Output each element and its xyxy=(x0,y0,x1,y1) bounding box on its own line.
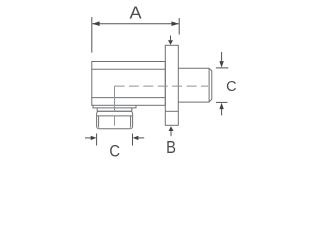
label C right xyxy=(226,79,237,95)
dim C bottom extension line right xyxy=(132,134,134,146)
body inner top line xyxy=(92,68,166,70)
svg-text:C: C xyxy=(109,143,120,161)
svg-text:B: B xyxy=(166,137,176,157)
centerline horizontal (stub axis, dashed) xyxy=(115,85,209,87)
dim B tail top xyxy=(170,36,172,41)
label A xyxy=(129,3,141,23)
dim C right arrowhead bottom (points up) xyxy=(219,103,223,109)
dim C bottom arrowhead right (points left) xyxy=(133,136,139,140)
body (main horizontal block) xyxy=(92,62,166,106)
svg-text:A: A xyxy=(129,3,141,23)
label C bottom xyxy=(109,143,120,161)
nut chamfer shoulder line xyxy=(97,115,132,117)
nut (bottom) xyxy=(97,111,133,129)
right stub (threaded port) xyxy=(178,68,212,102)
flange plate (vertical) xyxy=(165,45,178,125)
dim C right extension line top xyxy=(216,67,228,69)
dim C bottom extension line left xyxy=(96,134,98,146)
dim A line xyxy=(92,23,179,25)
dim A extension line right xyxy=(178,18,180,35)
centerline vertical (bottom port axis, dashed) xyxy=(114,86,116,129)
dim C right arrowhead top (points down) xyxy=(219,61,223,68)
dim A arrowhead right xyxy=(172,21,179,26)
bottom collar 2 xyxy=(97,108,132,111)
nut left flat line xyxy=(98,116,100,128)
flange inner line xyxy=(165,110,178,112)
dim C bottom tail right xyxy=(138,137,144,139)
dim A extension line left xyxy=(91,17,93,53)
dim B tail bottom xyxy=(170,131,172,136)
dim B arrowhead bottom (points up at flange bottom) xyxy=(169,126,174,131)
dim A arrowhead left xyxy=(92,21,99,26)
dim C right tail bottom xyxy=(221,109,223,115)
dim C bottom tail left xyxy=(85,137,91,139)
right stub chamfer line xyxy=(208,68,210,102)
body inner bottom line xyxy=(92,97,166,99)
nut right flat line xyxy=(130,116,132,128)
dim B arrowhead top (points down at flange top) xyxy=(168,40,173,45)
dim C right tail top xyxy=(221,52,223,61)
dim C bottom arrowhead left (points right) xyxy=(91,136,97,140)
svg-text:C: C xyxy=(226,79,237,95)
bottom collar 1 (wide thin plate) xyxy=(93,105,136,108)
label B xyxy=(166,137,176,157)
dim C right extension line bottom xyxy=(216,101,228,103)
